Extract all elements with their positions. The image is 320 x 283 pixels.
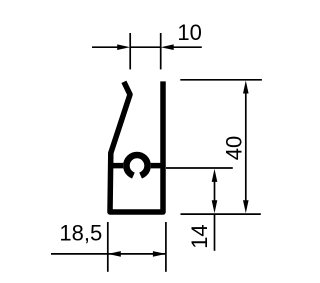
svg-text:10: 10 <box>177 20 201 45</box>
svg-text:18,5: 18,5 <box>59 221 102 246</box>
svg-text:40: 40 <box>222 136 247 160</box>
svg-text:14: 14 <box>187 224 212 248</box>
